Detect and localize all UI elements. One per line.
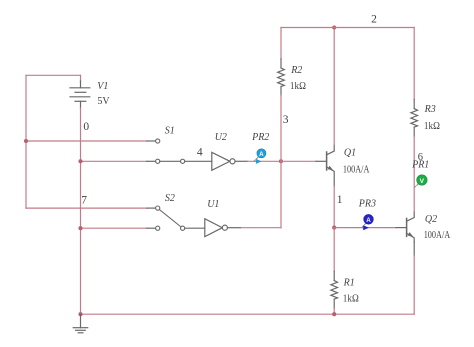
svg-text:4: 4	[197, 147, 203, 159]
svg-text:100A/A: 100A/A	[343, 165, 370, 176]
probe PR3	[362, 215, 374, 231]
svg-text:Q1: Q1	[344, 148, 356, 159]
junction battery bus S1	[78, 159, 82, 163]
wire R3 bottom to Q2 collector	[413, 136, 415, 211]
svg-text:R2: R2	[290, 65, 302, 76]
ground	[73, 314, 88, 333]
switch S1	[156, 139, 212, 164]
wire right riser	[413, 256, 415, 315]
junction R1 bottom bus	[332, 312, 336, 316]
svg-text:A: A	[366, 217, 371, 224]
wire node3 down to U1 output row	[280, 161, 282, 227]
svg-text:V: V	[420, 178, 425, 185]
svg-text:PR1: PR1	[411, 159, 429, 170]
junction at left bus S1	[24, 139, 28, 143]
transistor Q2	[407, 211, 415, 242]
wire top bus	[281, 27, 414, 29]
resistor R1	[331, 271, 338, 308]
junction battery bus S2	[78, 226, 82, 230]
svg-text:U1: U1	[207, 199, 219, 210]
svg-text:R1: R1	[343, 277, 355, 288]
wire left bus vertical	[25, 75, 27, 208]
svg-text:1kΩ: 1kΩ	[290, 81, 306, 92]
wire Q1 collector	[333, 28, 335, 146]
resistor R3	[411, 99, 418, 136]
svg-text:S2: S2	[165, 193, 175, 204]
svg-text:R3: R3	[424, 104, 436, 115]
wire battery bottom bus vertical	[80, 108, 82, 314]
wire top-left horizontal	[26, 74, 81, 76]
wire R1 bottom	[333, 308, 335, 314]
svg-text:1kΩ: 1kΩ	[424, 121, 440, 132]
wire S1 bottom	[81, 160, 147, 162]
transistor Q1	[327, 145, 335, 186]
svg-text:0: 0	[83, 121, 89, 133]
wire U2 output to node 3	[248, 160, 281, 162]
svg-text:PR2: PR2	[251, 132, 269, 143]
svg-text:100A/A: 100A/A	[424, 230, 451, 241]
junction top bus	[332, 25, 336, 29]
wire node3 to Q1 base	[281, 160, 316, 162]
junction node 3	[279, 159, 283, 163]
resistor R2	[278, 59, 285, 95]
svg-text:U2: U2	[215, 132, 227, 143]
wire S2 top throw	[26, 207, 147, 209]
battery V1	[70, 81, 90, 108]
wire Q1 emitter down	[333, 186, 335, 228]
wire R2 bottom to node 3	[280, 95, 282, 161]
wire battery top stub	[80, 75, 82, 81]
wire R1 top	[333, 228, 335, 272]
wire Q2 base lead	[396, 227, 407, 229]
wire R2 top	[280, 28, 282, 59]
svg-text:3: 3	[283, 114, 289, 126]
svg-text:7: 7	[81, 194, 87, 206]
probe PR1	[415, 175, 427, 187]
wire Q1 base lead	[316, 160, 327, 162]
junction Q1 emitter node	[332, 226, 336, 230]
probe PR2	[254, 149, 266, 164]
svg-text:A: A	[259, 151, 264, 158]
wire S1 top throw	[26, 140, 147, 142]
svg-text:V1: V1	[97, 81, 108, 92]
junction ground	[78, 312, 82, 316]
svg-text:S1: S1	[165, 126, 175, 137]
svg-text:1: 1	[337, 194, 343, 206]
wire R3 top	[413, 28, 415, 100]
wire Q2 emitter down	[413, 242, 415, 255]
switch S2	[156, 206, 205, 230]
wire U1 output horizontal	[240, 227, 281, 229]
svg-text:PR3: PR3	[358, 199, 376, 210]
svg-text:2: 2	[371, 13, 377, 25]
svg-text:1kΩ: 1kΩ	[343, 294, 359, 305]
inverter U2	[212, 152, 248, 170]
wire bottom bus	[81, 313, 415, 315]
inverter U1	[205, 219, 240, 237]
wire S2 bottom	[81, 227, 147, 229]
svg-text:Q2: Q2	[425, 214, 437, 225]
wire node1 to Q2 base	[334, 227, 396, 229]
svg-text:5V: 5V	[97, 96, 110, 107]
